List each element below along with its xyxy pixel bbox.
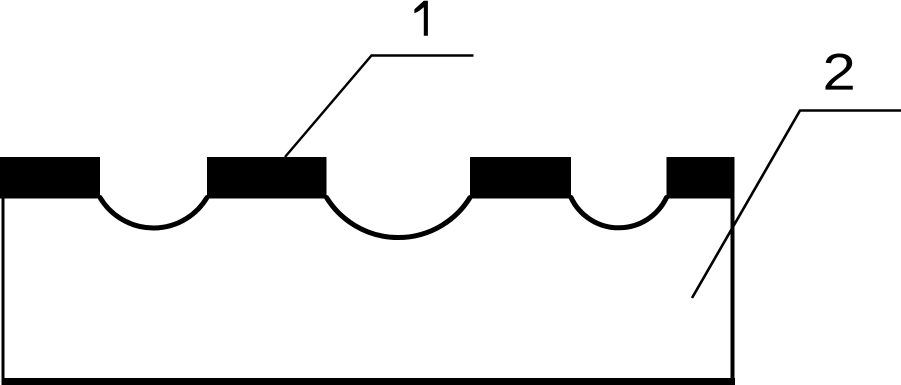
substrate 2 bottom edge: [2, 378, 736, 385]
label 1 (digit drawn as path, Arial-style without foot bar): [414, 1, 428, 36]
etched groove arc C: [571, 198, 667, 228]
leader line for label 2: [692, 111, 901, 299]
substrate 2 right edge: [731, 197, 735, 385]
mask segment 4 (layer 1, rightmost): [667, 157, 735, 199]
substrate 2 left edge: [2, 197, 5, 385]
mask segment 1 (layer 1, leftmost): [0, 157, 100, 199]
mask segment 2 (layer 1, pointed by leader): [207, 157, 327, 199]
etched groove arc A: [100, 198, 207, 229]
mask segment 3 (layer 1): [470, 157, 571, 199]
label 2 (digit drawn as path): [826, 54, 853, 90]
etched groove arc B: [327, 198, 471, 238]
leader line for label 1: [285, 56, 474, 158]
